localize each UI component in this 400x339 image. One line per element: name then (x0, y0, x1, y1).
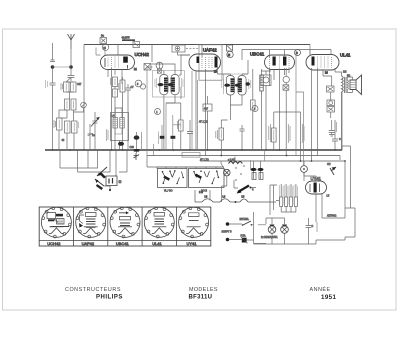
wire CV1 (94, 112, 96, 150)
socket divider 2 (107, 207, 109, 246)
UL41 grids (318, 57, 332, 69)
tuning gang arrow 1 (97, 167, 107, 176)
wire v310 stub (309, 45, 311, 55)
label 500p (54, 120, 56, 128)
wire R6R7 (114, 87, 116, 151)
IF1 comb B dark (171, 78, 175, 92)
socket UBC41 internals (119, 212, 129, 214)
svg-text:UCH42: UCH42 (135, 52, 150, 57)
wire lower joins (59, 110, 74, 150)
resistor dark blob a (160, 136, 165, 139)
tube UY41 envelope (306, 181, 327, 194)
wire R8 (122, 77, 124, 150)
circled point 1 (155, 109, 161, 115)
choke L6 (220, 199, 230, 202)
circled point 0 (140, 84, 145, 89)
tube UCH42 envelope (101, 55, 135, 70)
wire v197.5 (197, 80, 199, 150)
wire right v4 (339, 156, 341, 161)
resistor R14 (252, 173, 256, 180)
wire R13 (273, 112, 275, 150)
connector pair boxes (327, 100, 335, 106)
capacitor C9 (187, 120, 193, 150)
coil L1a (65, 99, 70, 110)
wire col2 (285, 112, 287, 156)
socket UL41 (144, 207, 174, 238)
svg-text:CONSTRUCTEURS: CONSTRUCTEURS (65, 287, 121, 293)
socket UL41 internals (154, 213, 165, 217)
lamp E2 (281, 226, 289, 234)
dial box (106, 176, 117, 186)
variable capacitor CV1 (93, 118, 98, 126)
wire line167 (157, 166, 222, 168)
wire L4 leads (115, 108, 122, 150)
IF2 capsule B (238, 76, 246, 96)
gang blob 1 (100, 172, 107, 179)
label 50k (110, 78, 112, 85)
UAF42 cathode bar (197, 57, 200, 64)
wire drop to switches (147, 156, 224, 169)
svg-text:UL41: UL41 (152, 241, 162, 246)
dropper resistor R16 (280, 197, 283, 207)
wire UY41 leads (304, 172, 322, 222)
pilot lamp (224, 169, 231, 176)
gang blob 2 (96, 184, 103, 190)
UBC41 grids (270, 57, 290, 69)
wire power left vertical (254, 212, 267, 244)
wire IF1b (166, 55, 190, 103)
resistor R10 (179, 120, 184, 131)
label column osc (106, 129, 108, 141)
svg-text:2 Ω: 2 Ω (199, 191, 203, 194)
switch box VL (158, 169, 188, 188)
svg-text:4n7: 4n7 (204, 108, 209, 111)
IF1 can box (153, 71, 185, 98)
socket UBC41 (110, 207, 140, 238)
IF1 capsule B (171, 75, 179, 95)
dashed link (186, 48, 198, 50)
wire UCH42 pins down (108, 68, 122, 150)
wire UAF42 pins (196, 45, 218, 156)
resistor R6 (113, 77, 118, 87)
grid resistor R13 (272, 128, 277, 142)
node dot B (69, 65, 73, 69)
wire lamp (222, 157, 235, 203)
label C24 (155, 78, 157, 88)
svg-text:AT 1,7Ω: AT 1,7Ω (199, 121, 208, 124)
svg-text:UAF42: UAF42 (203, 48, 217, 53)
wire right v1 (341, 92, 343, 150)
wire left box edge (83, 45, 85, 151)
svg-text:INTERR.: INTERR. (240, 218, 250, 221)
transformer secondary (347, 80, 348, 90)
UCH42 internal grids (108, 57, 119, 69)
label 2n (78, 122, 80, 128)
wire UL41 pins (312, 68, 336, 161)
wire R11 (221, 120, 227, 156)
wire droppers (276, 184, 296, 212)
svg-text:C19: C19 (130, 146, 135, 149)
label 20k (118, 83, 120, 90)
circle trimmer T1 (81, 102, 87, 108)
label 2x47k (269, 124, 271, 142)
jack circle (263, 77, 269, 83)
wire bus3 (200, 160, 345, 162)
wire v166 ext (165, 103, 167, 150)
svg-text:C17: C17 (77, 83, 82, 86)
wire AVC comb (261, 69, 263, 150)
wire nested L4 (119, 150, 127, 172)
node dot A (51, 65, 55, 69)
IF2 cap B dark blob (235, 84, 241, 87)
resistor R15 (259, 173, 263, 180)
circled point 15 (102, 44, 108, 50)
lamp E1 (268, 226, 276, 234)
wire right v2 (342, 146, 351, 208)
svg-text:AT 1,7Ω: AT 1,7Ω (200, 159, 209, 162)
box with X S1 (144, 64, 151, 71)
wire heater chain left (210, 185, 277, 215)
label 2x005 (250, 160, 252, 170)
label dropper1 (279, 185, 283, 205)
wire v153 (153, 144, 155, 156)
IF1 comb A dark (164, 78, 168, 92)
cap box on bus (133, 42, 140, 48)
label col2 (288, 124, 290, 143)
svg-text:BF311U: BF311U (189, 294, 213, 300)
label dropper2 (284, 185, 288, 205)
GO levers (194, 171, 218, 183)
svg-text:2x MR3/0,075A: 2x MR3/0,075A (261, 236, 278, 239)
wire nested L1 (60, 150, 98, 168)
IF2 capsule A (226, 76, 234, 96)
small box X P (283, 85, 289, 90)
circled point 5 (135, 80, 142, 87)
wire R1R2 joins (66, 78, 74, 100)
ballast coil bumps (229, 162, 243, 164)
svg-text:40,5/F5: 40,5/F5 (122, 37, 131, 40)
switch box GO (189, 169, 225, 188)
dropper resistor R17 (285, 197, 288, 207)
circled point M2 (283, 76, 289, 82)
circled dot terminal (301, 166, 308, 173)
small box X Q (327, 86, 335, 92)
socket divider 3 (141, 207, 143, 246)
circled point 9 (295, 50, 301, 56)
IF2 comb B dark (238, 78, 242, 92)
trimmer C19b (134, 153, 140, 160)
wire top bus (84, 44, 310, 46)
UAF42 anode bar (215, 57, 218, 68)
VL levers (163, 171, 184, 183)
label dropper4 (294, 185, 298, 205)
capacitor C7 (126, 84, 132, 150)
choke L5 (240, 199, 248, 202)
INTERR switch (243, 221, 251, 225)
wire C19 (136, 132, 138, 153)
wire below-bus v77 (78, 150, 102, 172)
node choke dot (235, 201, 237, 203)
trimmer C18 (88, 130, 93, 139)
resistor R11 (219, 128, 224, 140)
VL lever blob (163, 176, 170, 181)
wire box13 down (178, 52, 191, 55)
wire antenna link (53, 66, 72, 68)
svg-text:UBC41: UBC41 (116, 241, 130, 246)
svg-text:VL / GO: VL / GO (164, 190, 173, 193)
wire boxP (274, 68, 301, 112)
IF2 cap A dark blob (224, 84, 230, 87)
wire v141 (141, 132, 143, 150)
L4 inner marks (115, 128, 122, 134)
socket UCH42 (41, 207, 71, 238)
socket divider 1 (73, 207, 75, 246)
wire circled dot (303, 161, 305, 181)
wire choke left drop (194, 190, 196, 202)
UY41 anode bar (314, 183, 317, 193)
dark cap blob IF2 (246, 82, 250, 85)
output transformer primary (342, 76, 344, 92)
IF1 cap A dark blob (158, 83, 164, 86)
socket UY41 (179, 207, 209, 238)
wire UL41 screen (323, 76, 332, 86)
UBC41 diode bars (273, 57, 276, 66)
svg-text:UL41: UL41 (340, 53, 351, 58)
wire drop from bus to UCH42 (117, 45, 119, 56)
tube UBC41 envelope (265, 55, 295, 70)
label C26 (222, 79, 224, 89)
resistor R1 (64, 82, 70, 92)
resistor R7 (113, 89, 118, 97)
wire diode box (207, 96, 209, 150)
wire Bu drop (96, 48, 101, 56)
wire nested L3 (115, 150, 117, 176)
svg-text:C: C (339, 138, 341, 141)
wire switch area (234, 180, 256, 188)
electrolytic symbol (156, 62, 163, 69)
IF1 capsule A (160, 75, 168, 95)
wire lamp diagonal (221, 161, 225, 170)
label 4n5 (335, 122, 337, 132)
small box pair B7 (227, 45, 233, 51)
wire R12 (252, 69, 254, 150)
IF2 comb A dark (231, 78, 235, 92)
svg-text:UY41: UY41 (187, 241, 198, 246)
wire fuse (229, 239, 253, 242)
connector box Bu (100, 38, 107, 44)
wire R10 (166, 103, 181, 150)
mains cap blob 2 (258, 168, 264, 171)
resistor R3 (57, 118, 63, 130)
wire jack (261, 71, 271, 150)
wire v147 (147, 67, 153, 156)
speaker (350, 75, 362, 95)
oscillator box L4 (111, 113, 129, 141)
wire IF2b (230, 60, 248, 105)
wire UBC41 pins (270, 50, 290, 151)
bus cap dark bar (122, 39, 135, 41)
wire v303.6 (296, 92, 304, 166)
wire IF2a (218, 74, 243, 120)
scatter dots (235, 167, 236, 168)
node dot (109, 189, 111, 191)
wire gang bottom (104, 186, 110, 191)
wire right v3 (345, 161, 351, 208)
tube UL41 envelope (306, 55, 339, 71)
svg-text:1951: 1951 (321, 294, 337, 301)
wire below-bus v88 (87, 150, 89, 168)
svg-text:ANNÉE: ANNÉE (310, 286, 331, 293)
label AVC (177, 121, 179, 129)
dial box glyphs (109, 178, 113, 184)
capacitor C2 (68, 69, 75, 81)
tuning gang arrow 2 (95, 179, 104, 186)
svg-text:≠ 2,4Ω: ≠ 2,4Ω (228, 159, 235, 162)
wire v264.7 below (264, 150, 266, 161)
wire col3 (300, 112, 302, 161)
ground bar (329, 135, 335, 137)
socket UCH42 internals (47, 213, 56, 219)
phone jack box (261, 75, 271, 86)
switch hinge dot (250, 187, 252, 189)
antenna mains lead (50, 43, 55, 62)
mains switch lever (238, 186, 249, 193)
capacitor C11 (329, 126, 335, 134)
coil L1b (71, 99, 76, 110)
wire v296 (295, 50, 297, 156)
label dropper3 (289, 185, 293, 205)
svg-text:MODELES: MODELES (189, 287, 218, 293)
capacitor C13 (306, 218, 312, 231)
UAF42 grids (202, 57, 212, 69)
L4 coil comb b (120, 118, 124, 129)
VL dots (162, 171, 164, 173)
fuse FUS dark box (242, 238, 247, 243)
label 1M (61, 83, 63, 90)
CV1 arrow (91, 117, 100, 127)
resistor R2 (71, 82, 77, 92)
wire trimmer down (89, 124, 91, 150)
label C27 (249, 79, 251, 89)
wire lamps (258, 218, 285, 244)
UL41 cathode bar (312, 57, 315, 66)
wire choke row (195, 201, 276, 203)
wire transformer leads (335, 72, 353, 150)
box X S2 (157, 69, 161, 73)
svg-text:UCH42: UCH42 (47, 241, 61, 246)
svg-text:(1): (1) (119, 181, 122, 184)
wire C11 up (331, 120, 333, 126)
wire cap blobs (254, 161, 261, 179)
label C25 (181, 78, 183, 88)
svg-text:UAF42: UAF42 (82, 241, 95, 246)
IF1 cap B dark blob (168, 83, 174, 86)
box point 13 (172, 45, 185, 52)
circled point 7 (252, 106, 258, 112)
wire v192 (191, 71, 193, 150)
diode load box (203, 104, 212, 111)
wire nested L2 (101, 150, 110, 172)
svg-text:AT/700Ω: AT/700Ω (327, 215, 337, 218)
wire interr (229, 223, 253, 226)
socket divider 4 (175, 207, 177, 246)
UBC41 anode bar (283, 57, 286, 66)
choke L8 (202, 199, 213, 202)
dropper resistor R19 (294, 197, 297, 207)
terminal dot mains1 (226, 222, 230, 226)
svg-text:SUPPT 5: SUPPT 5 (222, 231, 233, 234)
circled point M (227, 51, 233, 57)
GO lever blob (195, 174, 202, 179)
label col3 (302, 124, 304, 143)
label CH47 (316, 222, 318, 232)
wire coil down (60, 108, 84, 121)
lamp E2 base (282, 225, 287, 227)
capacitor C19 dark (134, 135, 140, 139)
resistor dark blob b (171, 136, 176, 139)
UCH42 anode bar (123, 57, 128, 63)
socket UAF42 (76, 207, 106, 238)
label volume (216, 130, 218, 139)
dropper resistor R18 (290, 197, 293, 207)
circled point 13 (175, 46, 180, 51)
wire bus drop x152 (151, 45, 153, 63)
AVC comb resistor (260, 75, 263, 91)
node dots on bus1 (52, 149, 346, 162)
IF2 can frame (224, 74, 249, 94)
screen box UAF42 (199, 45, 222, 80)
svg-text:UBC41: UBC41 (250, 52, 265, 57)
label strip line (39, 240, 211, 242)
terminal dot mains2 (226, 238, 230, 242)
GO dots (193, 171, 195, 173)
wire mixer stub (104, 49, 106, 56)
socket row outer box (39, 207, 211, 246)
wire bottom long (316, 208, 355, 240)
resistor R8 (120, 80, 125, 92)
wire antenna down (70, 49, 72, 65)
wire bus2 (147, 155, 340, 157)
antenna symbol (68, 34, 75, 49)
below-bus label box (182, 153, 200, 158)
capacitor C10 (240, 125, 245, 150)
UY41 cathode (310, 184, 320, 193)
tube UAF42 envelope (189, 54, 221, 71)
svg-text:C: C (312, 225, 314, 228)
capacitor C1 (50, 69, 56, 150)
svg-text:PHILIPS: PHILIPS (96, 294, 123, 300)
capacitor C12 (332, 120, 338, 150)
wire top link UBC41 (242, 50, 331, 61)
resistor R12 (251, 100, 256, 110)
wire power bottom (254, 208, 346, 244)
wire IF1a (152, 64, 175, 150)
thermistor arrow (330, 167, 336, 175)
wire connector (330, 92, 332, 118)
socket UAF42 internals (86, 213, 97, 217)
capacitor C8 dark (118, 142, 124, 146)
lamp E1 base (270, 225, 275, 227)
svg-text:1M: 1M (343, 71, 346, 74)
socket UY41 internals (189, 213, 200, 217)
svg-text:M: M (228, 54, 230, 57)
transformer core (345, 77, 347, 93)
L4 coil comb a (113, 118, 117, 129)
wire bus1 (45, 149, 342, 151)
svg-text:CH: CH (327, 163, 331, 166)
resistor R5 (72, 121, 78, 133)
label C1 (46, 80, 48, 88)
